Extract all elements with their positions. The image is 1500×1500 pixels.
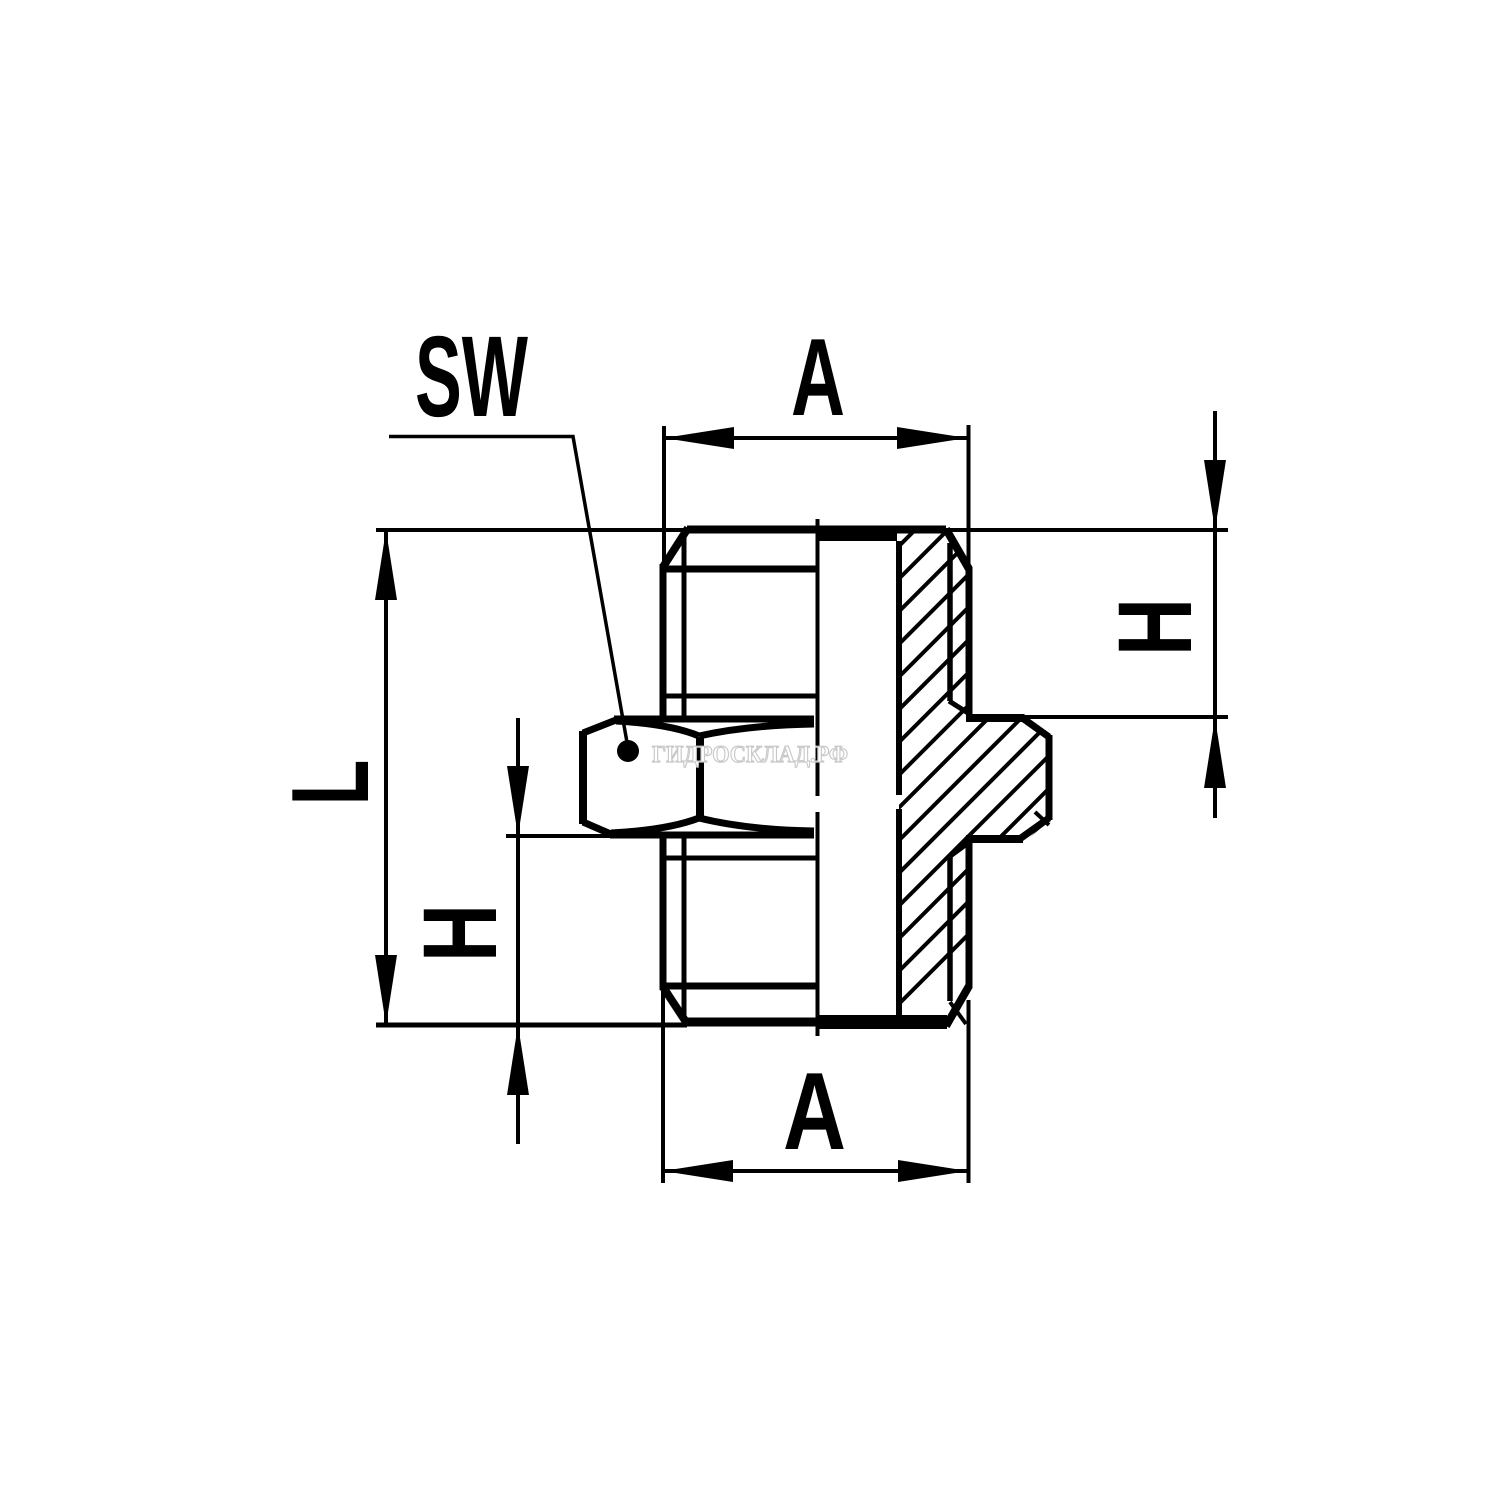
thread runout line lower	[662, 856, 818, 861]
SW leader dot	[617, 740, 639, 762]
dimension line H right	[1213, 411, 1217, 818]
H right arrow down	[1204, 460, 1226, 530]
hex corner top chamfer	[583, 720, 616, 733]
L arrow down	[375, 955, 397, 1025]
extension line A top left	[662, 426, 666, 570]
hex section right flat	[1046, 735, 1053, 820]
hatch line 2	[438, 520, 958, 1040]
hatch line 8	[634, 520, 1154, 1040]
extension line A top right	[967, 425, 971, 569]
hatch line 14	[830, 520, 1350, 1040]
centerline lower dash	[816, 812, 820, 1036]
thread OD edge upper	[966, 567, 973, 714]
svg-text:A: A	[783, 1050, 846, 1173]
hatch line 7	[601, 520, 1121, 1040]
extension line A bottom left	[661, 990, 665, 1183]
thread minor line upper	[682, 531, 687, 719]
svg-text:SW: SW	[415, 313, 528, 441]
section thread minor line lower	[947, 857, 953, 1001]
H lower arrow up	[507, 1025, 529, 1095]
hatch line 13	[797, 520, 1317, 1040]
bottom-right chamfer	[946, 986, 969, 1026]
hatch line 6	[569, 520, 1089, 1040]
dimension line A top	[664, 436, 967, 440]
section face bar top	[818, 526, 897, 541]
hatch line 5	[536, 520, 1056, 1040]
chamfer cone edge line top	[663, 566, 818, 573]
dimension line L	[384, 530, 388, 1025]
hatch line 3	[470, 520, 990, 1040]
hatch line 10	[699, 520, 1219, 1040]
A top arrow left	[664, 427, 734, 449]
hatch line 12	[765, 520, 1285, 1040]
hex top edge	[614, 716, 814, 723]
hex face arc top left	[616, 721, 699, 736]
chamfer cone edge line bottom	[663, 983, 818, 990]
hex corner flat left	[579, 731, 587, 824]
section face bar bottom	[817, 1015, 947, 1029]
hatch line 9	[667, 520, 1187, 1040]
H lower arrow down	[507, 766, 529, 836]
hex face arc bottom right	[699, 818, 814, 831]
thread minor line lower	[682, 836, 687, 1026]
A bottom arrow right	[898, 1160, 968, 1182]
section minor chamfer upper	[949, 701, 968, 713]
svg-text:ГИДРОСКЛАД.РФ: ГИДРОСКЛАД.РФ	[652, 742, 848, 768]
H right arrow up	[1204, 718, 1226, 788]
A top arrow right	[897, 427, 967, 449]
left end face upper	[660, 564, 667, 721]
bore wall line lower	[896, 809, 902, 1015]
hex section corner edge	[1035, 812, 1049, 825]
hatch line 15	[863, 520, 1383, 1040]
hatch line 11	[732, 520, 1252, 1040]
hex bottom edge	[610, 832, 814, 839]
left end face lower	[660, 834, 667, 990]
hex face arc top right	[699, 724, 814, 736]
hex section bottom chamfer	[1021, 818, 1049, 838]
centerline upper dash	[816, 519, 820, 796]
body top edge	[687, 526, 946, 534]
svg-text:A: A	[791, 316, 845, 439]
extension line top spanning drawing (y=530)	[376, 528, 1228, 532]
svg-text:L: L	[269, 760, 392, 806]
hex edge line	[696, 737, 704, 819]
L arrow up	[375, 530, 397, 600]
hex face arc bottom left	[611, 818, 699, 833]
hex section top edge	[966, 714, 1023, 722]
hex section top chamfer	[1021, 717, 1049, 737]
hatch line 4	[503, 520, 1023, 1040]
dimension line H lower left	[516, 718, 520, 1144]
dimension line A bottom	[663, 1169, 968, 1173]
hex section bottom edge	[966, 835, 1023, 843]
thread OD edge lower	[966, 841, 973, 988]
hatch line 1	[405, 520, 925, 1040]
A bottom arrow left	[663, 1160, 733, 1182]
extension line hex top right (y=717)	[1020, 715, 1228, 719]
section minor chamfer lower	[949, 843, 968, 857]
extension line hex bottom (y=836)	[506, 834, 611, 838]
svg-text:H: H	[402, 904, 519, 962]
bottom-left chamfer	[663, 987, 688, 1025]
bore wall line upper	[896, 541, 902, 795]
section thread minor line upper	[947, 543, 953, 701]
svg-text:H: H	[1097, 598, 1214, 656]
thread runout line upper	[662, 694, 818, 699]
extension line bottom left (y=1025)	[376, 1023, 687, 1028]
body bottom edge	[687, 1018, 947, 1027]
SW leader line	[389, 437, 628, 749]
hex corner bottom chamfer	[583, 822, 613, 835]
bottom-right inner chamfer edge	[950, 1002, 966, 1024]
top-left chamfer	[663, 528, 688, 567]
extension line A bottom right	[967, 1000, 971, 1183]
top-right chamfer	[946, 529, 969, 569]
